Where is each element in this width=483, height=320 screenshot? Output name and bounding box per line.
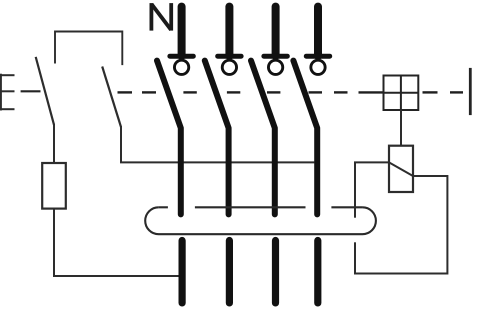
mechanism box cross horizontal	[384, 92, 419, 94]
pole L1 terminal stub	[225, 7, 233, 56]
wire S1 to resistor	[53, 124, 55, 164]
wire coil right loop	[354, 176, 447, 274]
wire test circuit to pole N bottom	[53, 275, 179, 277]
wire S2 down	[120, 126, 122, 162]
pole L2 terminal circle	[268, 60, 282, 74]
pole N lower conductor	[179, 241, 186, 303]
trip coil F1 body	[389, 146, 413, 192]
linkage end bar	[469, 68, 472, 115]
mechanism box	[384, 76, 419, 111]
test contact S2 blade	[102, 67, 121, 128]
pole L2 contact blade	[251, 61, 275, 215]
pole N contact blade	[157, 61, 181, 215]
pole L3 terminal circle	[311, 60, 325, 74]
resistor R (test resistor)	[42, 163, 66, 209]
wire S2 to pole L3	[120, 161, 314, 163]
pole L3 clamp bar	[306, 54, 329, 59]
pole L2 clamp bar	[264, 54, 287, 59]
pole L3 contact blade	[293, 61, 317, 215]
pole L1 terminal circle	[222, 60, 236, 74]
wire toroid secondary to coil left	[354, 161, 389, 163]
linkage dash button to test contact	[21, 90, 41, 92]
wire box to trip coil	[400, 110, 402, 146]
pole L1 lower conductor	[226, 241, 233, 303]
mechanical linkage dashed line	[118, 91, 464, 93]
push button E (test button actuator)	[0, 74, 15, 111]
pole N clamp bar	[170, 54, 193, 59]
secondary winding wire upper	[354, 162, 356, 217]
toroid core W1 top edge segments	[159, 206, 363, 208]
toroid core W1 bottom outline	[145, 207, 376, 234]
pole L3 terminal stub	[314, 7, 322, 56]
pole L1 contact blade	[205, 61, 229, 215]
trip coil F1 diagonal	[389, 162, 413, 176]
mechanism box cross vertical	[400, 76, 402, 111]
pole N terminal circle	[174, 60, 188, 74]
wire resistor down	[53, 209, 55, 276]
secondary winding wire lower	[354, 242, 356, 273]
pole N terminal stub	[178, 7, 186, 56]
pole L2 lower conductor	[272, 241, 279, 303]
test contact S1 blade	[36, 57, 54, 125]
label N (neutral pole)	[151, 3, 171, 31]
pole L3 lower conductor	[314, 241, 321, 303]
pole L1 clamp bar	[218, 54, 241, 59]
pole L2 terminal stub	[272, 7, 280, 56]
wire top bracket between test contacts	[55, 32, 122, 66]
